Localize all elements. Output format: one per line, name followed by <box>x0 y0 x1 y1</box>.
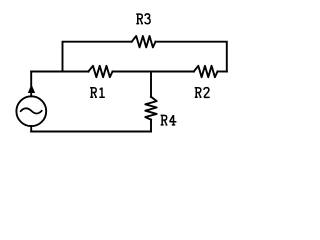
current source arrow <box>28 84 35 93</box>
resistor R2 <box>194 66 218 77</box>
label R2 <box>195 88 210 98</box>
wire R4 bottom: down to bottom wire <box>150 120 152 132</box>
wire top-left: left vertical from middle wire up, then top wire to R3 <box>63 42 132 72</box>
source sine wave <box>21 108 42 113</box>
label R3 <box>136 14 150 24</box>
wire source top stub <box>30 72 32 97</box>
wire middle-center: from R1 to R2 <box>113 71 194 73</box>
source V1 circle <box>16 96 46 126</box>
label R1 <box>90 88 105 98</box>
wire R4 top: from middle wire junction down to R4 <box>150 72 152 97</box>
wire bottom: from source bottom to R4 bottom <box>31 131 151 133</box>
wire source bottom stub <box>30 126 32 132</box>
resistor R1 <box>88 66 112 77</box>
label R4 <box>161 115 177 125</box>
wire middle-left: from source top corner to R1 <box>31 71 88 73</box>
wire top-right: top wire from R3, right vertical down to middle wire <box>156 42 227 72</box>
resistor R4 <box>145 97 156 120</box>
resistor R3 <box>132 36 156 47</box>
wire middle-right: from R2 to right vertical <box>218 71 227 73</box>
